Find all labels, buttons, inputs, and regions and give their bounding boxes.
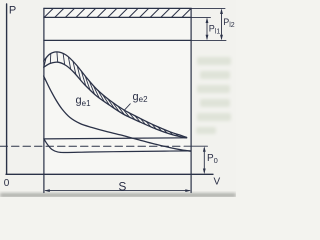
box interior lighter bbox=[44, 8, 191, 174]
strip hatching bbox=[44, 9, 191, 18]
curve ge2 upper bbox=[44, 52, 187, 137]
Pl1 dimension line bbox=[206, 20, 208, 39]
band hatch rungs bbox=[44, 52, 178, 136]
P axis bbox=[6, 4, 8, 174]
nominal delivery pressure line bbox=[44, 39, 191, 41]
expansion curve bbox=[44, 76, 191, 151]
suction dip curve bbox=[44, 139, 191, 153]
arrowheads S bbox=[44, 189, 50, 192]
nominal line extension bbox=[191, 39, 226, 41]
faint print-through blobs right margin bbox=[196, 57, 231, 134]
dashed p0 line bbox=[0, 145, 184, 147]
S dimension line bbox=[46, 190, 190, 192]
box right edge bbox=[190, 8, 192, 192]
strip bottom extension bbox=[191, 16, 210, 18]
ge2 leader line bbox=[124, 104, 131, 111]
strip top line bbox=[44, 7, 191, 9]
page background bbox=[0, 0, 236, 197]
arrowheads Pl2 bbox=[220, 8, 223, 14]
strip top extension bbox=[191, 7, 225, 9]
arrowheads Pl1 bbox=[206, 17, 209, 23]
V axis bbox=[6, 173, 213, 175]
arrowheads P0 bbox=[203, 146, 206, 152]
bottom scan shadow bbox=[0, 193, 236, 197]
strip bottom line bbox=[44, 16, 191, 18]
svg-text:S: S bbox=[118, 179, 126, 193]
p0 extension solid bbox=[184, 145, 208, 147]
Pl2 dimension line bbox=[221, 11, 223, 39]
suction line bbox=[44, 138, 187, 139]
P0 dimension line bbox=[203, 148, 205, 172]
svg-text:V: V bbox=[214, 176, 221, 187]
curve ge1 lower bbox=[44, 62, 187, 138]
box left edge bbox=[43, 8, 45, 192]
svg-text:P: P bbox=[9, 5, 16, 17]
svg-text:0: 0 bbox=[4, 178, 10, 189]
